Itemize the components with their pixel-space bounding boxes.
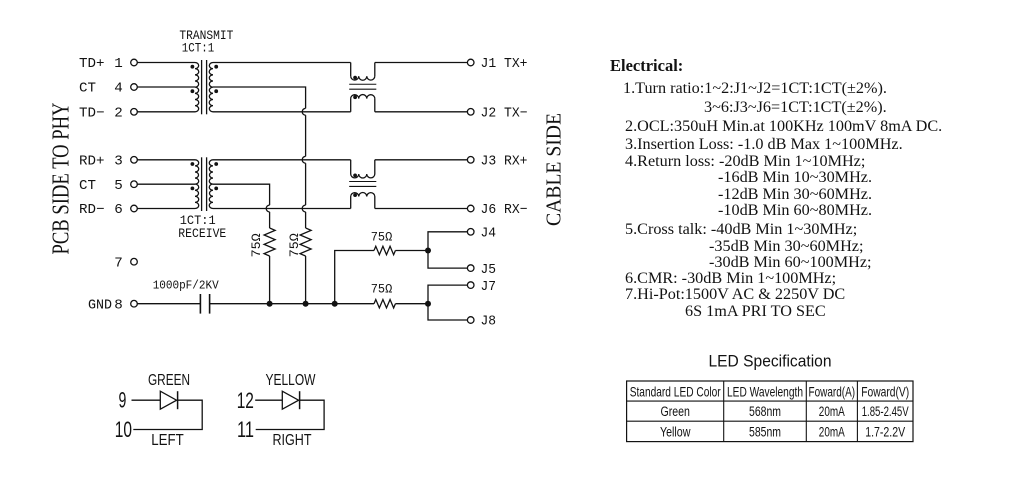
spec line 2 turn ratio b xyxy=(704,99,887,116)
wire resistor R1 to GND rail xyxy=(269,256,271,304)
pin 2 terminal xyxy=(131,109,138,116)
wire node B vertical segment 2 xyxy=(305,163,307,205)
junction dot R2-GND xyxy=(303,301,309,307)
svg-text:Foward(V): Foward(V) xyxy=(861,383,909,399)
wire hop node B over J3 wire xyxy=(302,156,305,163)
svg-text:8: 8 xyxy=(114,297,123,313)
svg-text:7: 7 xyxy=(114,255,123,271)
wire pin4 to T1 primary center tap xyxy=(137,86,195,88)
svg-text:20mA: 20mA xyxy=(819,404,845,419)
LED table column line 1 xyxy=(723,381,725,442)
terminal J1 xyxy=(467,59,474,66)
resistor R3 75ohm (horizontal) xyxy=(374,246,395,254)
svg-text:J1 TX+: J1 TX+ xyxy=(481,56,528,72)
resistor R1 75ohm (vertical) xyxy=(264,228,275,256)
spec line 11 xyxy=(709,254,872,271)
svg-text:12: 12 xyxy=(237,388,254,413)
svg-text:J5: J5 xyxy=(481,262,497,278)
svg-text:J6 RX−: J6 RX− xyxy=(481,202,528,218)
svg-text:1.85-2.45V: 1.85-2.45V xyxy=(862,404,909,419)
spec line 12 CMR xyxy=(625,270,836,287)
wire node B to resistor R2 xyxy=(305,212,307,228)
wire T2 secondary bottom to choke L2 xyxy=(213,208,351,210)
svg-text:10: 10 xyxy=(115,417,132,442)
svg-text:RIGHT: RIGHT xyxy=(273,432,312,449)
svg-text:TD−: TD− xyxy=(79,106,105,122)
terminal J5 xyxy=(467,265,474,272)
svg-text:LEFT: LEFT xyxy=(151,432,184,449)
terminal J4 xyxy=(467,229,474,236)
svg-text:GREEN: GREEN xyxy=(148,372,190,389)
LED table outer border xyxy=(627,381,913,442)
spec line 7 xyxy=(718,186,872,203)
LED table column line 2 xyxy=(805,381,807,442)
wire pin5 to T2 primary center tap xyxy=(137,183,195,185)
LED D1 green diode xyxy=(160,391,176,409)
wire choke L2 to J6 xyxy=(375,208,468,210)
LED table row line 2 xyxy=(627,420,913,422)
svg-text:LED Wavelength: LED Wavelength xyxy=(727,383,803,399)
svg-text:RECEIVE: RECEIVE xyxy=(178,227,226,241)
resistor R2 75ohm (vertical) xyxy=(300,228,311,256)
transformer T2 RECEIVE 1CT:1 xyxy=(195,160,199,209)
wire hop node A over J6 wire xyxy=(266,205,269,212)
svg-text:9: 9 xyxy=(119,387,127,412)
wire LED D2 to pin11 xyxy=(256,400,324,429)
wire T1 secondary top to choke L1 xyxy=(213,62,351,64)
wire pin12 to LED D2 xyxy=(255,399,282,401)
svg-text:CT: CT xyxy=(79,178,96,194)
pin 4 terminal xyxy=(131,84,138,91)
svg-text:J3 RX+: J3 RX+ xyxy=(481,154,528,170)
wire pin9 to LED D1 xyxy=(132,399,161,401)
terminal J6 xyxy=(467,205,474,212)
wire R4 to J7/J8 junction xyxy=(395,303,428,305)
svg-text:75Ω: 75Ω xyxy=(371,281,393,296)
junction dot riser-GND xyxy=(332,301,338,307)
LED table row line 1 xyxy=(627,400,913,402)
terminal J3 xyxy=(467,157,474,164)
wire T1 secondary bottom to choke L1 xyxy=(213,111,351,113)
pin 5 terminal xyxy=(131,181,138,188)
wire junction to J5 xyxy=(428,251,467,269)
common-mode choke L2 (receive) xyxy=(350,160,352,174)
terminal J8 xyxy=(467,317,474,324)
spec line 1 turn ratio xyxy=(623,80,887,97)
wire choke L1 to J2 xyxy=(375,111,468,113)
wire junction to J4 xyxy=(428,232,467,251)
wire capacitor C1 to GND rail junctions xyxy=(210,303,335,305)
svg-text:YELLOW: YELLOW xyxy=(266,372,316,389)
spec line 5 return loss xyxy=(625,153,865,170)
svg-text:20mA: 20mA xyxy=(819,424,845,439)
svg-text:585nm: 585nm xyxy=(749,424,781,439)
junction dot R1-GND xyxy=(267,301,273,307)
spec line 13 Hi-Pot xyxy=(625,286,845,303)
resistor R4 75ohm (horizontal) xyxy=(374,300,395,308)
svg-text:TD+: TD+ xyxy=(79,56,105,72)
svg-text:J4: J4 xyxy=(481,226,497,242)
transformer T1 TRANSMIT 1CT:1 xyxy=(195,63,199,112)
svg-text:3: 3 xyxy=(114,154,123,170)
wire GND rail to resistor R4 xyxy=(335,303,374,305)
svg-text:2: 2 xyxy=(114,106,123,122)
wire pin3 to T2 primary top xyxy=(137,159,195,161)
svg-text:1.7-2.2V: 1.7-2.2V xyxy=(865,424,905,439)
junction dot J7/J8 xyxy=(425,301,431,307)
svg-text:Standard LED Color: Standard LED Color xyxy=(630,383,721,399)
pin 3 terminal xyxy=(131,157,138,164)
wire resistor R2 to GND rail xyxy=(305,256,307,304)
svg-text:RD−: RD− xyxy=(79,202,105,218)
svg-text:6: 6 xyxy=(114,202,123,218)
common-mode choke L1 (transmit) xyxy=(350,63,352,77)
wire choke L1 to J1 xyxy=(375,62,468,64)
junction dot J4/J5 xyxy=(425,248,431,254)
svg-text:GND: GND xyxy=(88,297,112,313)
svg-text:568nm: 568nm xyxy=(749,404,781,419)
svg-text:Foward(A): Foward(A) xyxy=(809,383,856,399)
wire junction to J8 xyxy=(428,304,467,320)
spec line 3 OCL xyxy=(625,118,942,135)
svg-text:1000pF/2KV: 1000pF/2KV xyxy=(153,278,220,292)
svg-text:1: 1 xyxy=(114,56,123,72)
spec line 4 insertion loss xyxy=(625,136,903,153)
wire pin8 to capacitor C1 xyxy=(137,303,200,305)
LED D2 yellow diode xyxy=(282,391,298,409)
spec line 10 xyxy=(709,238,863,255)
Electrical: heading xyxy=(610,57,683,74)
svg-text:CT: CT xyxy=(79,81,96,97)
svg-text:4: 4 xyxy=(114,81,123,97)
spec line 8 xyxy=(718,202,872,219)
wire choke L2 to J3 xyxy=(375,159,468,161)
spec line 14 xyxy=(685,303,826,320)
svg-text:J7: J7 xyxy=(481,279,497,295)
pin 6 terminal xyxy=(131,205,138,212)
spec line 9 cross talk xyxy=(625,221,857,238)
svg-text:PCB SIDE TO PHY: PCB SIDE TO PHY xyxy=(48,102,75,254)
pin 7 terminal xyxy=(131,258,138,265)
svg-text:J2 TX−: J2 TX− xyxy=(481,106,528,122)
capacitor C1 1000pF/2KV xyxy=(199,294,201,314)
svg-text:CABLE SIDE: CABLE SIDE xyxy=(541,113,565,226)
svg-text:Green: Green xyxy=(660,404,690,419)
wire node B vertical segment 1 xyxy=(305,115,307,156)
pin 1 terminal xyxy=(131,59,138,66)
wire pin1 to T1 primary top xyxy=(137,62,195,64)
svg-text:75Ω: 75Ω xyxy=(249,233,264,257)
svg-text:J8: J8 xyxy=(481,314,497,330)
wire pin2 to T1 primary bottom xyxy=(137,111,195,113)
wire R3 to J4/J5 junction xyxy=(395,250,428,252)
svg-text:5: 5 xyxy=(114,178,123,194)
wire LED D1 to pin10 xyxy=(133,400,202,429)
wire pin6 to T2 primary bottom xyxy=(137,208,195,210)
wire T1 secondary center tap to node B xyxy=(213,87,306,108)
terminal J7 xyxy=(467,282,474,289)
terminal J2 xyxy=(467,109,474,116)
LED table column line 3 xyxy=(856,381,858,442)
pin 8 terminal xyxy=(131,300,138,307)
svg-text:RD+: RD+ xyxy=(79,154,105,170)
svg-text:LED Specification: LED Specification xyxy=(709,353,832,371)
svg-text:75Ω: 75Ω xyxy=(287,233,302,257)
wire junction to J7 xyxy=(428,285,467,304)
wire T2 secondary center tap to node A xyxy=(213,184,270,205)
wire hop node B over J6 wire xyxy=(302,205,305,212)
svg-text:1CT:1: 1CT:1 xyxy=(182,41,215,55)
svg-text:75Ω: 75Ω xyxy=(371,229,393,244)
spec line 6 xyxy=(718,169,872,186)
wire riser from GND rail to R3 xyxy=(335,251,374,304)
svg-text:Yellow: Yellow xyxy=(660,424,691,439)
svg-text:11: 11 xyxy=(237,417,254,442)
wire node A to resistor R1 xyxy=(269,212,271,228)
wire hop node B over J2 wire xyxy=(302,108,305,115)
wire T2 secondary top to choke L2 xyxy=(213,159,351,161)
